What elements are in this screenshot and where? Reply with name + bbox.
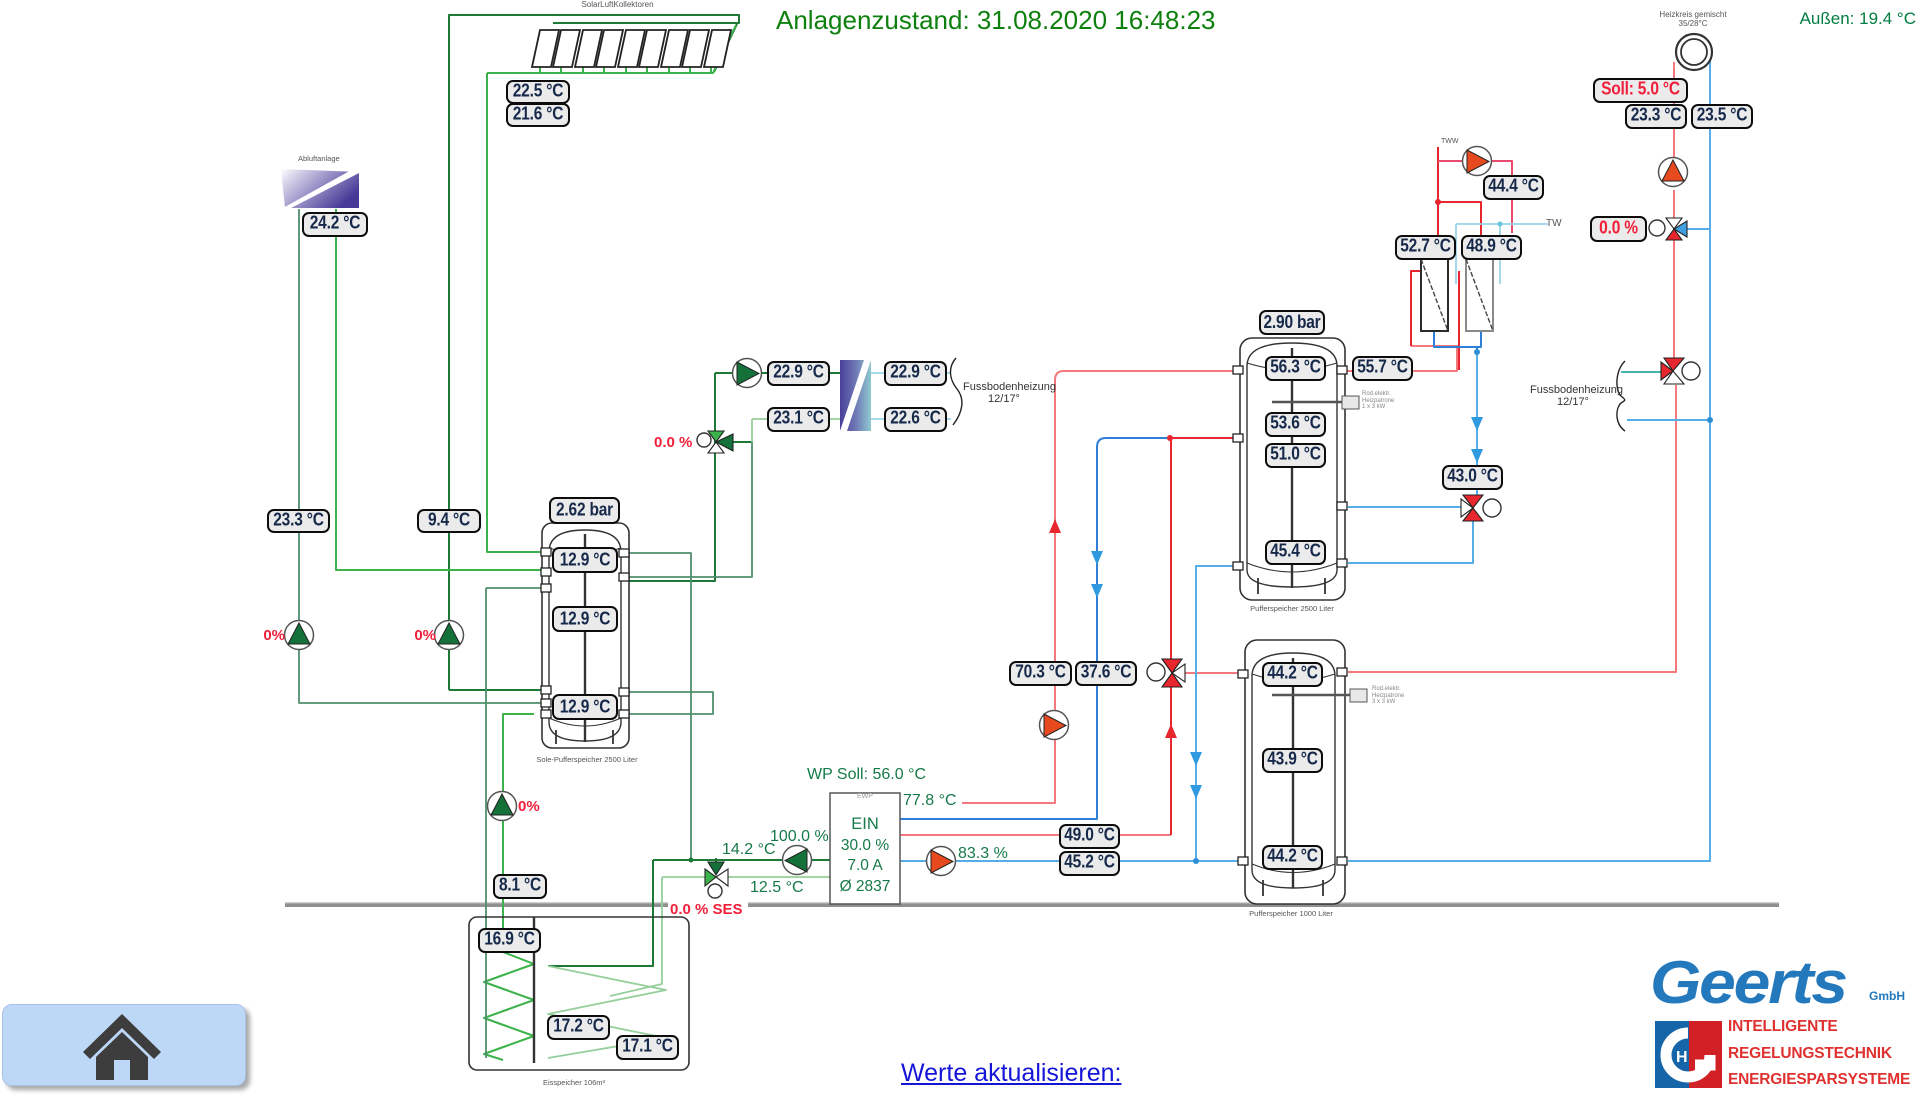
svg-text:H: H bbox=[1676, 1049, 1688, 1066]
